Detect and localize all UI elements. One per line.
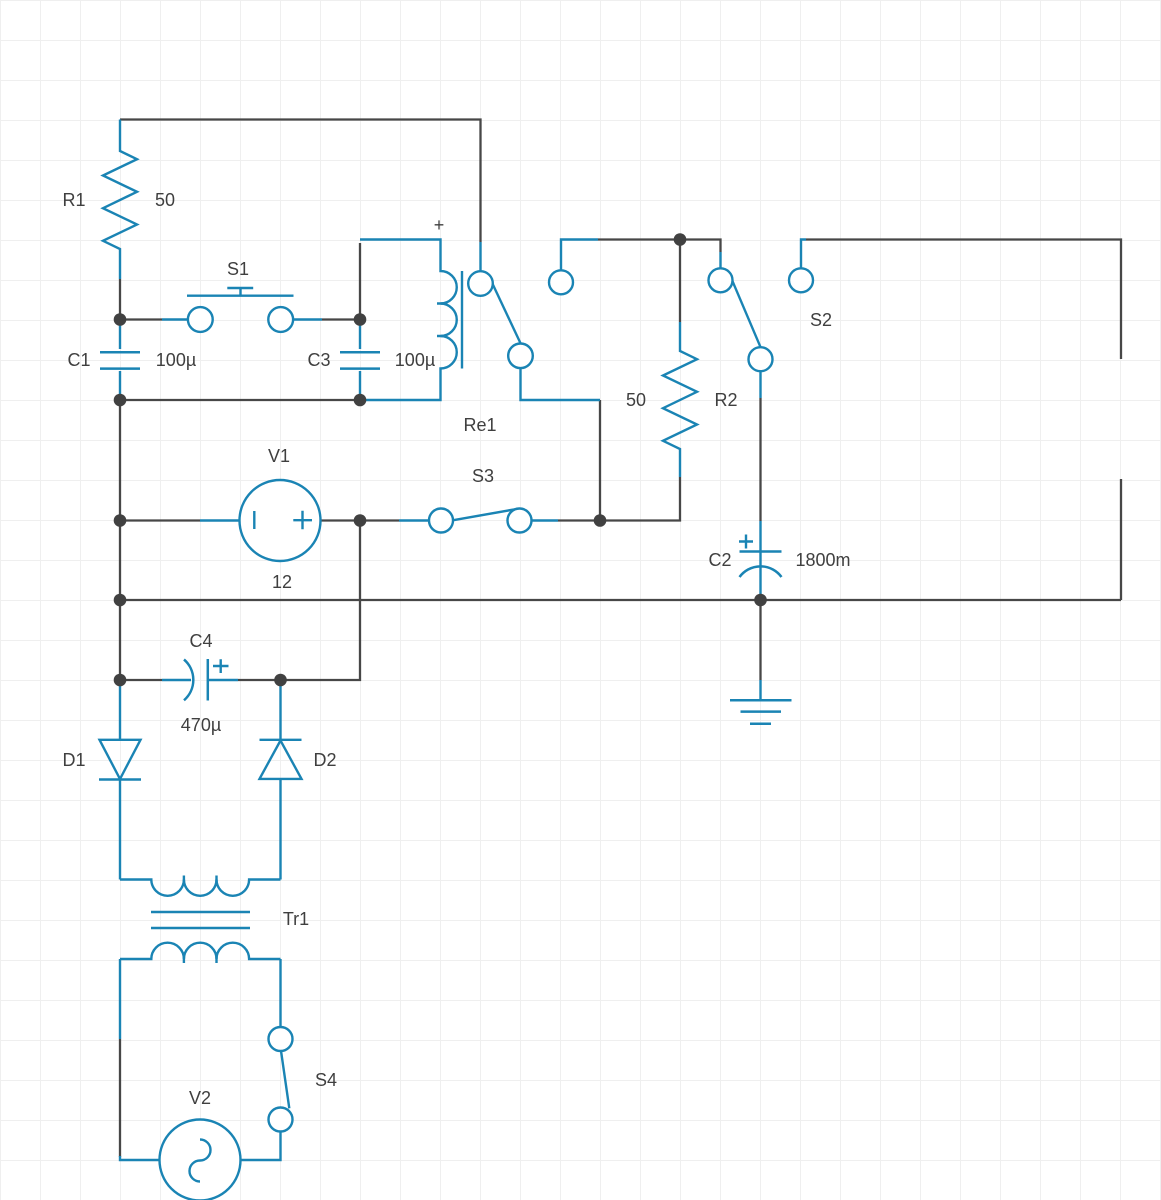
wire second rail from relay throw to S2 left throw: [598, 240, 721, 253]
V2 sine mark: [190, 1140, 211, 1182]
wire node to S3 left lead: [360, 519, 399, 521]
switch S3 lever: [453, 509, 520, 521]
node C4 left junction: [114, 674, 127, 687]
node C3-coil bottom junction: [354, 394, 367, 407]
C2 polarity +: [739, 535, 753, 549]
wire right rail lower part to main rail: [1120, 479, 1122, 600]
switch S4 top terminal: [269, 1027, 293, 1051]
node V1-S3 junction: [354, 514, 367, 527]
node C2-ground junction: [754, 594, 767, 607]
transformer Tr1 primary joint ticks: [184, 876, 217, 884]
switch S2 right throw terminal: [801, 240, 806, 269]
wire S2 common down to C2: [759, 398, 761, 521]
node C4-D2 junction: [274, 674, 287, 687]
svg-text:S4: S4: [315, 1070, 337, 1090]
relay Re1 contact moving terminal: [508, 344, 533, 369]
wire node to R2 top: [679, 240, 681, 323]
switch S4 lever: [281, 1051, 289, 1109]
relay Re1 contact common terminal: [479, 242, 481, 271]
C4 polarity +: [213, 659, 229, 673]
capacitor C2 polarized: [759, 521, 761, 600]
wire from V1/S3 node down and left to C4 right node: [281, 521, 361, 681]
diode D1: [119, 680, 121, 740]
transformer Tr1 primary winding: [120, 880, 281, 896]
relay Re1 core bar: [461, 271, 463, 369]
wire S3 node to R2 bottom: [600, 477, 680, 521]
svg-text:C1: C1: [67, 350, 90, 370]
node second rail R2 junction: [674, 233, 687, 246]
svg-text:+: +: [434, 215, 445, 235]
wire C3 top column from corner to node: [359, 243, 361, 320]
wire V1 right to node: [321, 519, 360, 521]
svg-text:S1: S1: [227, 259, 249, 279]
svg-text:V2: V2: [189, 1088, 211, 1108]
svg-text:C3: C3: [307, 350, 330, 370]
node C1 bottom junction: [114, 394, 127, 407]
svg-text:R2: R2: [714, 390, 737, 410]
resistor R1: [103, 120, 137, 280]
wire S1 right lead to node: [322, 318, 360, 320]
switch S1 pushbutton: [162, 318, 322, 320]
svg-text:S3: S3: [472, 466, 494, 486]
node rail left junction: [114, 594, 127, 607]
svg-text:50: 50: [626, 390, 646, 410]
capacitor C4 polarized: [162, 679, 191, 681]
diode D2: [279, 680, 281, 740]
transformer Tr1 secondary winding: [120, 943, 281, 959]
transformer Tr1 secondary left lead: [119, 959, 121, 1039]
capacitor C3: [359, 320, 361, 350]
svg-text:Re1: Re1: [463, 415, 496, 435]
svg-text:Tr1: Tr1: [283, 909, 309, 929]
relay Re1 coil joint ticks: [437, 304, 446, 337]
switch S2 common terminal: [749, 347, 773, 371]
wire V2 left column: [119, 1039, 121, 1157]
wire bottom rail C1 to C3: [120, 399, 360, 401]
svg-text:100µ: 100µ: [156, 350, 196, 370]
wire left column x=120 from C1 node down to C4 node: [119, 400, 121, 680]
capacitor C1: [119, 320, 121, 350]
wire node to S1 left lead: [120, 318, 162, 320]
wire C2 node down to ground: [759, 600, 761, 680]
V1 minus mark: [253, 511, 255, 529]
wire node to V1 left lead: [120, 519, 200, 521]
wire C4 node to C4 left lead: [120, 679, 162, 681]
switch S3 right terminal: [508, 509, 532, 533]
wire main horizontal rail y=600: [120, 599, 1121, 601]
relay Re1 throw terminal to second rail: [561, 240, 598, 271]
wire relay common down to S3 node: [599, 400, 601, 521]
switch S4 bottom terminal: [269, 1108, 293, 1132]
switch S2 lever: [732, 281, 760, 348]
wire S2 right throw to right rail, down to open end: [806, 240, 1121, 360]
wire S3 right lead to node: [558, 519, 600, 521]
svg-text:V1: V1: [268, 446, 290, 466]
node R1-C1-S1 junction: [114, 313, 127, 326]
svg-text:1800m: 1800m: [795, 550, 850, 570]
svg-text:R1: R1: [62, 190, 85, 210]
svg-text:S2: S2: [810, 310, 832, 330]
switch S2 left throw terminal: [719, 252, 721, 269]
svg-text:D1: D1: [62, 750, 85, 770]
relay Re1 contact lever: [493, 284, 521, 344]
node S1-C3 junction: [354, 313, 367, 326]
svg-text:12: 12: [272, 572, 292, 592]
AC source V2: [120, 1156, 160, 1160]
svg-text:470µ: 470µ: [181, 715, 221, 735]
resistor R2: [663, 322, 697, 477]
transformer Tr1 secondary right lead: [279, 959, 281, 1027]
ground: [759, 680, 761, 700]
svg-text:C2: C2: [708, 550, 731, 570]
node S3-relay-R2 junction: [594, 514, 607, 527]
voltage source V1: [200, 519, 240, 521]
transformer Tr1 secondary joint ticks: [184, 955, 217, 963]
wire top rail from R1 top to relay contact: [120, 120, 481, 243]
svg-text:C4: C4: [189, 631, 212, 651]
relay Re1 coil: [360, 240, 457, 401]
transformer Tr1 core: [151, 912, 250, 928]
V1 plus mark: [293, 511, 312, 530]
node V1 left junction: [114, 514, 127, 527]
wire R1 bottom to node: [119, 279, 121, 320]
svg-text:D2: D2: [313, 750, 336, 770]
switch S3 left terminal: [399, 519, 429, 521]
svg-text:50: 50: [155, 190, 175, 210]
svg-text:100µ: 100µ: [395, 350, 435, 370]
wire C4 right lead to node: [238, 679, 281, 681]
